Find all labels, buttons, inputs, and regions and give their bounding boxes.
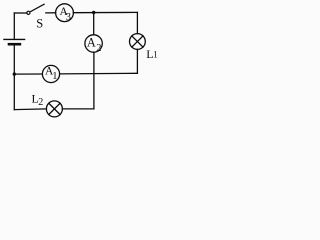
svg-text:S: S xyxy=(36,16,43,30)
svg-text:2: 2 xyxy=(96,43,101,54)
svg-text:2: 2 xyxy=(38,97,43,108)
svg-text:1: 1 xyxy=(52,71,57,82)
svg-text:A: A xyxy=(87,36,96,50)
svg-text:1: 1 xyxy=(153,50,158,60)
svg-text:3: 3 xyxy=(66,12,71,23)
